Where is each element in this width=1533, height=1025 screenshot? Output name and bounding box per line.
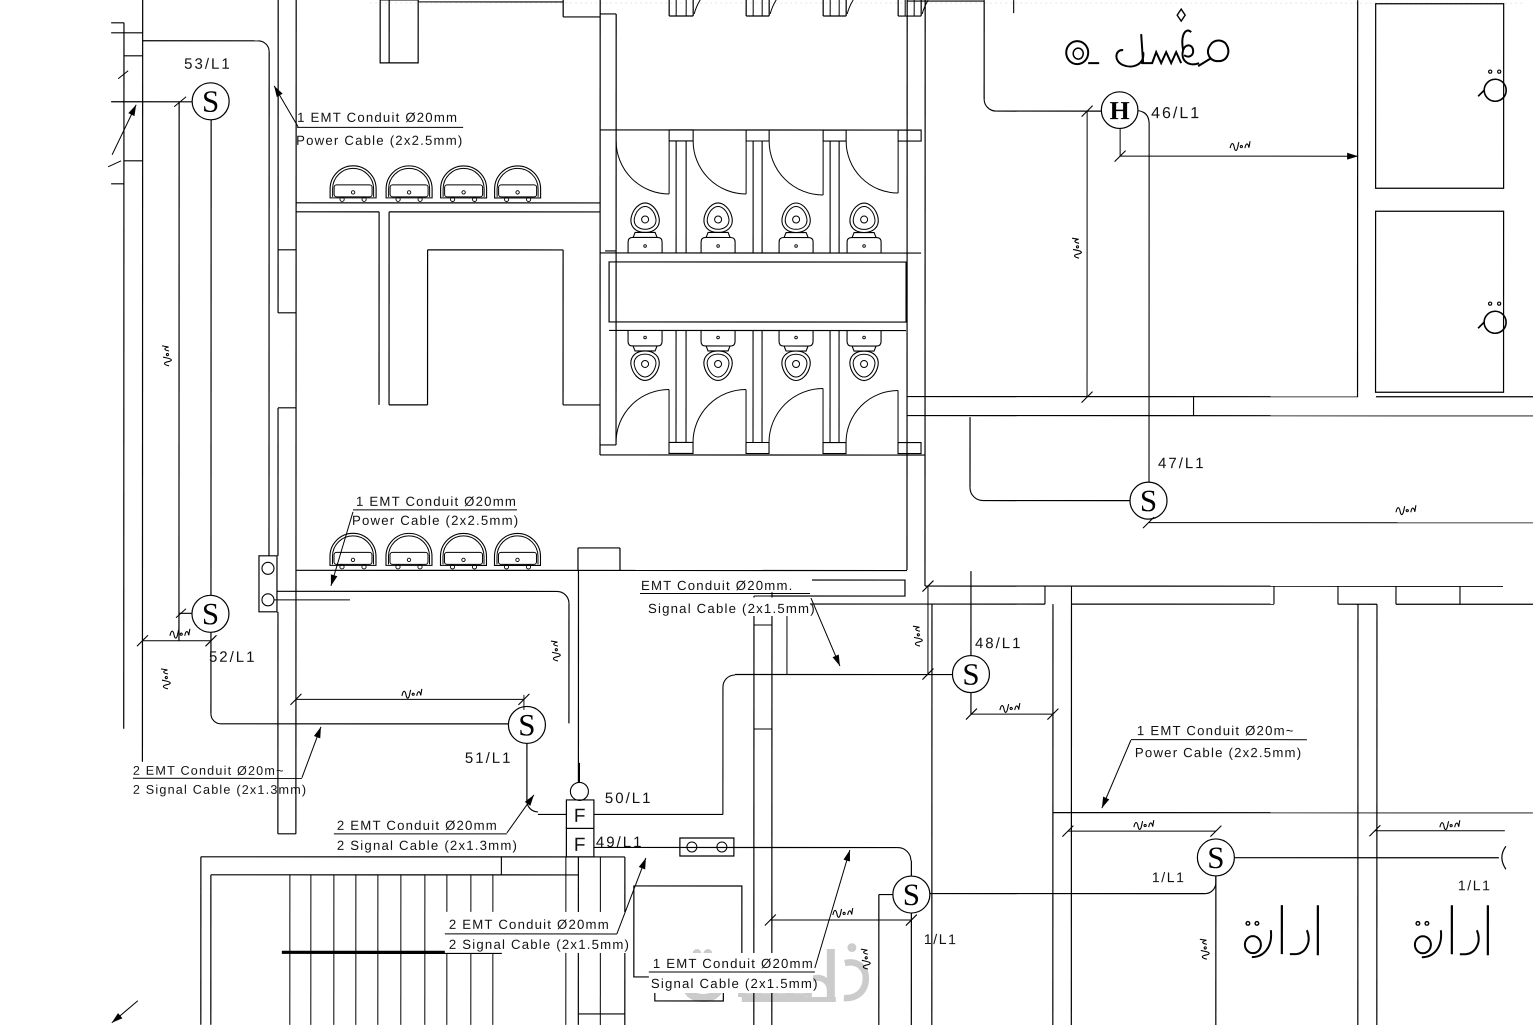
svg-text:S: S xyxy=(202,84,219,119)
svg-text:S: S xyxy=(962,657,979,692)
svg-text:52/L1: 52/L1 xyxy=(209,649,257,666)
svg-text:1 EMT Conduit Ø20m~: 1 EMT Conduit Ø20m~ xyxy=(1137,723,1295,738)
svg-text:51/L1: 51/L1 xyxy=(465,750,513,767)
svg-text:2 Signal Cable (2x1.3mm): 2 Signal Cable (2x1.3mm) xyxy=(337,838,518,853)
svg-text:1 EMT Conduit Ø20mm: 1 EMT Conduit Ø20mm xyxy=(653,956,814,971)
svg-text:2 EMT Conduit Ø20m~: 2 EMT Conduit Ø20m~ xyxy=(133,764,285,778)
svg-text:S: S xyxy=(1207,840,1224,875)
svg-text:EMT Conduit Ø20mm.: EMT Conduit Ø20mm. xyxy=(641,578,794,593)
svg-text:1 EMT Conduit Ø20mm: 1 EMT Conduit Ø20mm xyxy=(356,494,517,509)
svg-text:2 EMT Conduit Ø20mm: 2 EMT Conduit Ø20mm xyxy=(449,917,610,932)
svg-text:46/L1: 46/L1 xyxy=(1151,105,1201,122)
svg-text:Signal Cable (2x1.5mm): Signal Cable (2x1.5mm) xyxy=(648,601,816,616)
svg-text:F: F xyxy=(574,806,586,827)
svg-text:S: S xyxy=(1140,483,1157,518)
svg-text:49/L1: 49/L1 xyxy=(596,834,644,851)
svg-text:2 Signal Cable (2x1.3mm): 2 Signal Cable (2x1.3mm) xyxy=(133,783,307,797)
svg-text:Power Cable (2x2.5mm): Power Cable (2x2.5mm) xyxy=(296,133,463,148)
svg-text:S: S xyxy=(202,596,219,631)
svg-text:Power Cable (2x2.5mm): Power Cable (2x2.5mm) xyxy=(1135,745,1302,760)
svg-text:S: S xyxy=(518,707,535,742)
svg-text:1/L1: 1/L1 xyxy=(924,931,958,947)
svg-text:48/L1: 48/L1 xyxy=(975,635,1023,652)
svg-text:Signal Cable (2x1.5mm): Signal Cable (2x1.5mm) xyxy=(651,976,819,991)
svg-text:F: F xyxy=(574,835,586,856)
svg-text:1/L1: 1/L1 xyxy=(1152,869,1186,885)
svg-text:H: H xyxy=(1110,96,1130,125)
svg-text:Power Cable (2x2.5mm): Power Cable (2x2.5mm) xyxy=(352,513,519,528)
svg-text:2 Signal Cable (2x1.5mm): 2 Signal Cable (2x1.5mm) xyxy=(449,937,630,952)
svg-text:S: S xyxy=(903,877,920,912)
svg-text:53/L1: 53/L1 xyxy=(184,56,232,73)
svg-text:1/L1: 1/L1 xyxy=(1458,877,1492,893)
svg-text:1 EMT Conduit Ø20mm: 1 EMT Conduit Ø20mm xyxy=(297,110,458,125)
svg-text:50/L1: 50/L1 xyxy=(605,790,653,807)
svg-text:2 EMT Conduit Ø20mm: 2 EMT Conduit Ø20mm xyxy=(337,818,498,833)
svg-text:47/L1: 47/L1 xyxy=(1158,455,1206,472)
